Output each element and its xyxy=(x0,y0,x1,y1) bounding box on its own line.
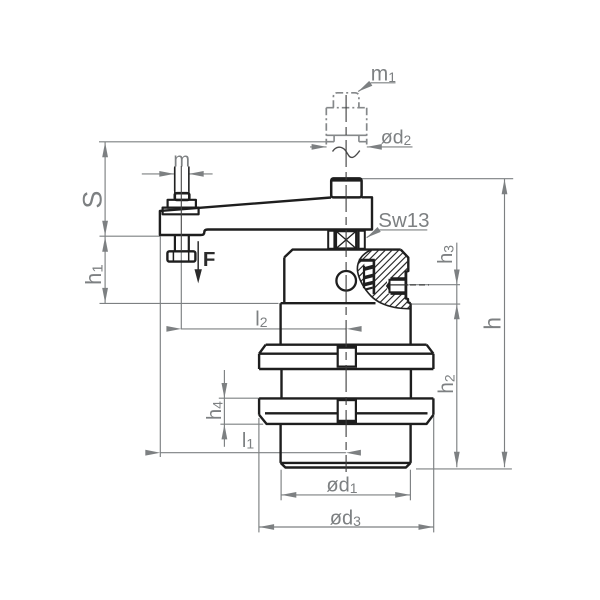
set screw cone point xyxy=(386,280,390,292)
cutaway arc xyxy=(357,250,410,309)
arrow h3 top-outside xyxy=(454,270,460,285)
set screw body xyxy=(390,280,406,293)
dimension h line xyxy=(504,179,506,468)
arrow l2 right xyxy=(347,326,362,332)
head bottom line xyxy=(281,302,376,304)
ext line h3 bottom xyxy=(412,303,460,305)
arrow h1 up xyxy=(102,237,108,252)
arrow h bottom xyxy=(502,452,508,467)
arm bolt nut xyxy=(168,200,196,208)
tabs white filled xyxy=(338,346,356,423)
stud top thick edge xyxy=(332,178,361,181)
body upper left edge xyxy=(279,303,281,345)
swing arm xyxy=(160,197,372,235)
arrow od3 left xyxy=(259,524,274,530)
stud top section xyxy=(331,178,361,197)
ext lines od1 xyxy=(280,470,282,501)
arrow od3 right xyxy=(419,524,434,530)
Sw13 square X xyxy=(336,231,357,249)
arm bolt shaft lower xyxy=(175,235,189,251)
GRAY-ARROWS xyxy=(102,81,507,530)
head left edge xyxy=(283,257,285,303)
arrow h4 top-outside xyxy=(222,383,228,398)
dimension m line xyxy=(142,173,175,175)
dimension l2 line xyxy=(181,328,347,330)
body lower edges xyxy=(281,424,411,463)
F force arrow xyxy=(195,241,216,283)
arrow h3 bottom-outside / h2 top xyxy=(454,304,460,319)
ring1 key tab xyxy=(338,346,356,367)
arrow h1 down xyxy=(102,288,108,303)
arrow m right-in xyxy=(189,171,204,177)
spring coil 4 xyxy=(365,287,372,291)
ext line bolt axis l2 xyxy=(180,252,182,330)
leader arrow Sw13 xyxy=(365,227,381,240)
body bottom edge xyxy=(281,463,411,468)
svg-text:Sw13: Sw13 xyxy=(378,209,429,232)
GRAY-LABELS xyxy=(78,62,506,529)
ext line bottom right xyxy=(416,468,512,470)
ring2 xyxy=(259,398,433,424)
phantom body sides xyxy=(326,108,366,145)
arrow l2 left xyxy=(166,326,181,332)
leader underline m1 xyxy=(358,83,395,92)
dimension h2 h3 line xyxy=(456,243,458,468)
arm bolt shaft upper xyxy=(175,167,189,194)
dimension od3 line xyxy=(259,526,434,528)
ext lines m xyxy=(173,168,175,192)
screw hole lines xyxy=(391,278,406,294)
dimension l1 line xyxy=(160,452,346,454)
CUTAWAY xyxy=(292,248,468,310)
Sw13 side bar right xyxy=(359,231,365,249)
arrow h top xyxy=(502,179,508,194)
centerline arm bolt xyxy=(180,166,182,251)
cavity top thick line xyxy=(359,259,375,262)
ext line screw axis right xyxy=(409,284,460,286)
hatch lines xyxy=(292,248,468,310)
Sw13 square xyxy=(336,231,357,249)
ext line h1 bottom xyxy=(100,302,279,304)
spring rail right xyxy=(373,260,376,294)
ext lines od3 xyxy=(258,418,260,532)
arrow l1 right xyxy=(346,450,361,456)
head right profile xyxy=(401,250,411,304)
leader underline Sw13 xyxy=(367,230,428,238)
spring rail left xyxy=(363,266,365,289)
ext line l1 left xyxy=(159,236,161,457)
svg-text:h: h xyxy=(480,317,506,330)
arrow od2 left-in xyxy=(312,144,327,150)
spring coil 1 xyxy=(365,265,373,271)
spring coil 2 xyxy=(365,274,373,280)
arm bolt washer xyxy=(163,208,199,215)
screw bore face line xyxy=(404,271,407,299)
arrow S up xyxy=(102,142,108,157)
PHANTOM PART m1 xyxy=(326,93,366,145)
phantom cap xyxy=(333,93,359,108)
arrow S down xyxy=(102,221,108,236)
svg-text:F: F xyxy=(203,248,216,271)
leader arrow m1 xyxy=(357,81,373,94)
spring coil 3 xyxy=(365,281,373,287)
Sw13 side bar left xyxy=(328,231,334,249)
arrow h2 bottom xyxy=(454,452,460,467)
arrow l1 left xyxy=(145,450,160,456)
arrow od1 right xyxy=(395,492,410,498)
dimension S line xyxy=(104,142,106,236)
arm bolt lower nut xyxy=(167,251,195,261)
arrow od2 right-in xyxy=(367,144,382,150)
ext line arm bottom left xyxy=(100,235,161,237)
dimension h4 line xyxy=(223,370,225,447)
body mid edges xyxy=(282,369,411,398)
svg-text:S: S xyxy=(78,191,108,209)
centerline main xyxy=(345,95,347,472)
arrow od1 left xyxy=(281,492,296,498)
GRAY-DIMS xyxy=(99,142,513,533)
dimension h1 line xyxy=(104,236,106,303)
ext lines h4 xyxy=(219,397,259,399)
BLACK GEOMETRY xyxy=(160,147,434,467)
ext line S top (clamp level) xyxy=(99,141,326,143)
head top edge xyxy=(284,250,400,258)
screw pocket white xyxy=(387,278,406,293)
body upper right edge xyxy=(409,303,411,345)
spring cavity white xyxy=(364,261,373,295)
dimension od1 line xyxy=(281,494,410,496)
pin hole circle xyxy=(336,271,356,291)
ring2 key tab xyxy=(338,400,356,423)
arrow h4 bottom-outside xyxy=(222,424,228,439)
ring1 xyxy=(259,345,433,369)
break squiggle xyxy=(333,147,360,157)
ext line h top (stud top) xyxy=(362,178,513,180)
screw centerline xyxy=(390,284,409,286)
arm bolt cap xyxy=(175,193,190,200)
phantom feet xyxy=(326,135,366,141)
dimension od2 line xyxy=(310,146,327,148)
lower nut facets xyxy=(173,252,188,261)
arrow m left-in xyxy=(159,171,174,177)
